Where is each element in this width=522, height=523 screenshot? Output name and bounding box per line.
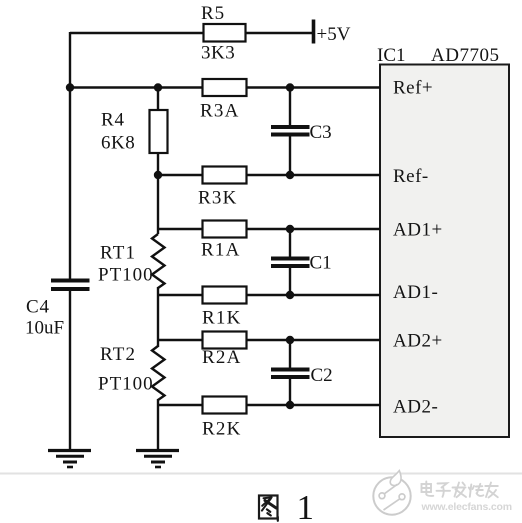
- watermark glyph zi: [437, 483, 451, 497]
- svg-text:R3K: R3K: [198, 188, 238, 209]
- ground left: [48, 451, 91, 468]
- svg-text:Ref-: Ref-: [393, 166, 429, 187]
- wire C3 vertical lower: [289, 136, 291, 176]
- wire C1 vertical upper: [289, 229, 291, 258]
- thermistor RT2 (PT100): [152, 346, 165, 400]
- watermark glyph dian: [422, 482, 434, 496]
- wire middle rail between RT1 and RT2: [157, 287, 159, 347]
- wire C3 vertical upper: [289, 88, 291, 127]
- junction node Ref+ / left rail: [66, 83, 74, 91]
- thermistor RT1 (PT100): [152, 234, 165, 288]
- svg-text:AD1+: AD1+: [393, 220, 443, 241]
- resistor R2K: [203, 397, 247, 414]
- junction node AD1+ / C1: [286, 225, 294, 233]
- caption glyph tu (figure): [259, 496, 278, 521]
- svg-text:RT1: RT1: [100, 243, 136, 264]
- junction node Ref+ / middle rail: [154, 83, 162, 91]
- wire middle rail bottom: [157, 399, 159, 450]
- wire middle rail RT1 upper stub: [157, 175, 159, 234]
- watermark glyph shao: [469, 484, 484, 497]
- power +5V: [312, 20, 316, 44]
- svg-text:+5V: +5V: [317, 24, 351, 45]
- watermark glyph fa: [453, 483, 467, 498]
- wire Ref+ net: [70, 86, 380, 88]
- IC U1 (AD7705) body: [380, 65, 509, 438]
- wire C2 vertical lower: [289, 378, 291, 405]
- svg-text:IC1: IC1: [377, 45, 406, 66]
- junction node AD2+ / C2: [286, 336, 294, 344]
- wire middle rail R4 segment: [157, 88, 159, 176]
- svg-text:R2A: R2A: [202, 347, 242, 368]
- svg-text:C4: C4: [26, 297, 50, 318]
- svg-text:R5: R5: [201, 3, 225, 24]
- resistor R3A: [203, 79, 247, 96]
- resistor R1K: [203, 287, 247, 304]
- svg-text:1: 1: [297, 488, 315, 523]
- svg-text:AD2+: AD2+: [393, 331, 443, 352]
- capacitor C2: [271, 368, 310, 372]
- svg-text:AD1-: AD1-: [393, 282, 438, 303]
- wire AD2+ net: [158, 339, 380, 341]
- resistor R2A: [203, 332, 247, 349]
- resistor R1A: [203, 221, 247, 238]
- capacitor C4: [51, 279, 90, 283]
- svg-text:R3A: R3A: [200, 101, 240, 122]
- wire top +5V rail: [70, 32, 312, 34]
- ground right: [136, 451, 179, 468]
- wire AD2- net: [158, 404, 380, 406]
- svg-text:3K3: 3K3: [201, 43, 235, 64]
- svg-text:Ref+: Ref+: [393, 78, 433, 99]
- resistor R5: [204, 24, 246, 42]
- resistor R3K: [203, 167, 247, 184]
- svg-text:R1K: R1K: [202, 308, 242, 329]
- svg-text:PT100: PT100: [98, 374, 154, 395]
- junction node AD2- / C2: [286, 401, 294, 409]
- capacitor C1: [271, 257, 310, 261]
- svg-text:PT100: PT100: [98, 265, 154, 286]
- svg-text:C2: C2: [311, 365, 333, 386]
- wire left rail lower: [69, 290, 71, 450]
- junction node AD1- / C1: [286, 291, 294, 299]
- junction node Ref- / C3: [286, 171, 294, 179]
- junction node Ref- / middle rail: [154, 171, 162, 179]
- capacitor C3: [271, 125, 310, 129]
- svg-text:AD7705: AD7705: [431, 45, 499, 66]
- svg-text:R1A: R1A: [201, 240, 241, 261]
- watermark glyph you: [485, 483, 498, 498]
- svg-text:R2K: R2K: [202, 419, 242, 440]
- wire left rail upper: [69, 32, 71, 279]
- svg-text:C1: C1: [310, 253, 332, 274]
- wire AD1+ net: [158, 228, 380, 230]
- svg-text:C3: C3: [310, 122, 332, 143]
- resistor R4: [150, 110, 168, 153]
- svg-text:R4: R4: [101, 110, 125, 131]
- svg-text:10uF: 10uF: [25, 318, 64, 339]
- wire Ref- net: [158, 174, 380, 176]
- wire C2 vertical upper: [289, 340, 291, 369]
- svg-text:www.elecfans.com: www.elecfans.com: [421, 501, 512, 513]
- svg-text:AD2-: AD2-: [393, 397, 438, 418]
- wire C1 vertical lower: [289, 267, 291, 295]
- watermark logo elecfans: [373, 471, 410, 515]
- svg-text:6K8: 6K8: [101, 133, 135, 154]
- separator line: [0, 473, 522, 475]
- wire AD1- net: [158, 294, 380, 296]
- junction node Ref+ / C3: [286, 83, 294, 91]
- svg-text:RT2: RT2: [100, 344, 136, 365]
